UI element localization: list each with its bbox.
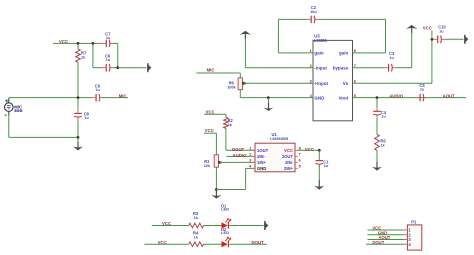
svg-text:GND: GND xyxy=(257,166,266,171)
svg-text:1u: 1u xyxy=(84,116,89,120)
svg-text:AUDIO: AUDIO xyxy=(233,153,248,158)
svg-text:GND: GND xyxy=(314,95,325,100)
svg-text:VCC: VCC xyxy=(284,148,293,153)
svg-text:Vs: Vs xyxy=(343,81,349,86)
svg-text:+Input: +Input xyxy=(314,81,328,86)
svg-text:P1: P1 xyxy=(411,219,417,224)
svg-text:gain: gain xyxy=(339,51,349,56)
svg-text:1u: 1u xyxy=(381,115,386,119)
svg-text:1u: 1u xyxy=(324,164,329,168)
svg-text:2IN-: 2IN- xyxy=(285,160,294,165)
svg-text:2OUT: 2OUT xyxy=(282,154,294,159)
svg-text:VCC: VCC xyxy=(423,25,432,30)
svg-text:2: 2 xyxy=(249,153,251,157)
svg-text:MIC: MIC xyxy=(119,93,127,98)
svg-text:5: 5 xyxy=(299,165,301,169)
svg-text:-Input: -Input xyxy=(314,65,327,70)
svg-text:1u: 1u xyxy=(106,36,111,40)
svg-text:DOUT: DOUT xyxy=(251,240,264,245)
svg-text:7: 7 xyxy=(299,153,301,157)
svg-text:LM386: LM386 xyxy=(314,38,328,43)
svg-text:6: 6 xyxy=(299,159,301,163)
svg-text:2IN+: 2IN+ xyxy=(284,166,294,171)
svg-text:1u: 1u xyxy=(439,30,444,34)
svg-text:2: 2 xyxy=(310,64,312,68)
svg-text:1u: 1u xyxy=(389,56,394,60)
svg-text:MIC: MIC xyxy=(14,105,22,110)
svg-text:DOUT: DOUT xyxy=(372,240,384,245)
svg-text:AOUT: AOUT xyxy=(443,94,456,99)
svg-text:8: 8 xyxy=(354,49,356,53)
svg-text:1u: 1u xyxy=(106,58,111,62)
svg-text:1: 1 xyxy=(310,49,312,53)
svg-text:gain: gain xyxy=(314,51,324,56)
svg-text:LED: LED xyxy=(221,230,229,235)
svg-text:VCC: VCC xyxy=(205,128,214,133)
svg-text:1IN-: 1IN- xyxy=(257,154,266,159)
svg-text:Vout: Vout xyxy=(339,95,349,100)
svg-text:1IN+: 1IN+ xyxy=(257,160,267,165)
svg-text:bypass: bypass xyxy=(333,65,349,70)
svg-text:MIC: MIC xyxy=(207,68,215,73)
svg-text:1u: 1u xyxy=(95,88,100,92)
svg-text:AUDIO: AUDIO xyxy=(389,94,404,99)
svg-text:LM393DR: LM393DR xyxy=(270,136,288,141)
svg-text:100k: 100k xyxy=(227,86,236,90)
svg-text:VCC: VCC xyxy=(206,109,215,114)
svg-text:3: 3 xyxy=(310,80,312,84)
svg-text:DOUT: DOUT xyxy=(232,147,245,152)
svg-text:1: 1 xyxy=(249,147,251,151)
svg-text:LED: LED xyxy=(221,206,229,211)
svg-text:1u: 1u xyxy=(420,88,425,92)
svg-text:10u: 10u xyxy=(310,10,317,14)
svg-text:10k: 10k xyxy=(204,164,211,168)
svg-text:3: 3 xyxy=(249,159,251,163)
svg-text:VCC: VCC xyxy=(305,147,314,152)
svg-text:1OUT: 1OUT xyxy=(257,148,269,153)
